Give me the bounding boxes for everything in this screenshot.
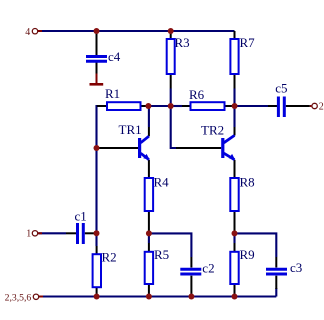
svg-text:c3: c3 bbox=[290, 260, 302, 275]
svg-text:c4: c4 bbox=[108, 49, 121, 64]
svg-text:TR2: TR2 bbox=[201, 123, 224, 138]
svg-text:TR1: TR1 bbox=[119, 122, 142, 137]
svg-text:c2: c2 bbox=[202, 261, 214, 276]
svg-text:4: 4 bbox=[25, 27, 30, 38]
svg-text:R4: R4 bbox=[154, 174, 170, 189]
svg-text:R2: R2 bbox=[102, 250, 117, 265]
svg-text:R7: R7 bbox=[240, 35, 256, 50]
svg-text:R8: R8 bbox=[240, 174, 255, 189]
svg-text:c1: c1 bbox=[75, 208, 87, 223]
svg-text:1: 1 bbox=[26, 228, 31, 239]
svg-text:R9: R9 bbox=[240, 247, 255, 262]
svg-text:c5: c5 bbox=[275, 81, 287, 96]
svg-text:R5: R5 bbox=[154, 247, 169, 262]
svg-text:R6: R6 bbox=[189, 87, 205, 102]
svg-text:2,3,5,6: 2,3,5,6 bbox=[5, 292, 32, 303]
svg-text:2: 2 bbox=[319, 102, 324, 113]
svg-text:R1: R1 bbox=[105, 86, 120, 101]
svg-text:R3: R3 bbox=[175, 35, 190, 50]
